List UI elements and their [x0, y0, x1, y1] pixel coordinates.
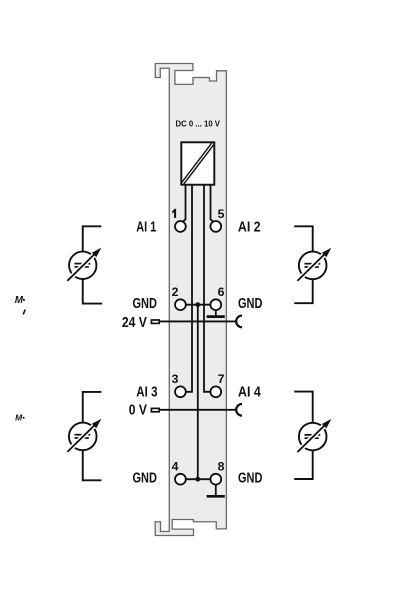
V2 arrow	[297, 253, 325, 281]
module body 750-459	[155, 64, 226, 536]
svg-text:6: 6	[218, 285, 225, 299]
svg-text:0 V: 0 V	[129, 402, 147, 418]
V1 circle	[69, 252, 96, 279]
terminal 4	[175, 474, 186, 485]
wire V4 top	[294, 392, 313, 423]
wire link 2-6	[186, 304, 210, 306]
isolation diagonal (double line)	[181, 142, 212, 183]
leg to terminal 5	[211, 185, 214, 222]
V3 arrowhead	[92, 419, 102, 429]
ground symbol terminal 8	[215, 485, 217, 496]
wire V3 top	[83, 392, 102, 423]
V1 equal lines	[75, 263, 91, 265]
24V line	[160, 320, 236, 322]
wire V3 bottom	[83, 450, 102, 480]
wire V4 bottom	[294, 450, 313, 479]
0V plug	[151, 408, 159, 411]
24V plug	[151, 320, 159, 323]
svg-text:M: M	[15, 295, 24, 306]
svg-text:4: 4	[172, 460, 179, 474]
V3 equal lines	[75, 434, 91, 436]
wire AI3 (box to terminal 3)	[186, 185, 192, 392]
terminal 6	[210, 299, 221, 310]
V4 arrowhead	[322, 419, 332, 429]
wire V2 top	[294, 226, 313, 252]
converter box U1	[181, 142, 214, 184]
svg-text:5: 5	[218, 207, 225, 221]
svg-text:AI 1: AI 1	[136, 220, 156, 236]
0V socket arc	[236, 404, 242, 416]
svg-text:24 V: 24 V	[122, 315, 147, 331]
svg-text:DC 0 ... 10 V: DC 0 ... 10 V	[176, 119, 221, 129]
V3 arrow halo	[67, 424, 95, 452]
svg-text:GND: GND	[133, 296, 157, 312]
V1 arrow	[67, 253, 95, 281]
V4 equal lines	[305, 434, 321, 436]
junction dot row 2	[195, 302, 200, 307]
terminal 3	[175, 386, 186, 397]
svg-text:3: 3	[172, 372, 179, 386]
svg-text:2: 2	[172, 285, 179, 299]
source symbol V4 (right lower)	[294, 392, 331, 479]
V4 arrow halo	[297, 424, 325, 452]
wire V1 bottom	[83, 279, 102, 304]
svg-text:GND: GND	[238, 471, 262, 487]
V1 arrow halo	[67, 253, 95, 281]
wire V1 top	[83, 226, 102, 251]
terminal 7	[210, 386, 221, 397]
source symbol V1 (left upper)	[67, 226, 102, 303]
source symbol V3 (left lower)	[67, 392, 101, 480]
leg to terminal 1	[183, 185, 186, 222]
source symbol V2 (right upper)	[294, 226, 331, 303]
V2 arrow halo	[297, 253, 325, 281]
svg-text:GND: GND	[238, 296, 262, 312]
ground symbol terminal 6	[215, 310, 217, 316]
V4 arrow	[297, 424, 325, 452]
svg-text:M: M	[15, 413, 22, 422]
svg-text:8: 8	[218, 460, 225, 474]
terminal 8	[210, 474, 221, 485]
svg-text:AI 3: AI 3	[136, 384, 157, 400]
V2 arrowhead	[322, 248, 332, 258]
svg-text:GND: GND	[133, 471, 157, 487]
wire link 4-8	[186, 478, 210, 480]
V2 circle	[299, 252, 327, 280]
24V socket arc	[236, 316, 242, 328]
0V line	[160, 409, 236, 411]
wire GND center rail	[197, 305, 199, 480]
svg-text:AI 4: AI 4	[238, 384, 261, 400]
wire AI4 (box to terminal 7)	[204, 185, 210, 392]
svg-text:AI 2: AI 2	[238, 220, 261, 236]
terminal 1	[175, 221, 186, 232]
V1 arrowhead	[92, 248, 102, 258]
pin number 1	[172, 209, 176, 218]
wire V2 bottom	[294, 279, 313, 303]
V3 arrow	[67, 424, 95, 452]
V3 circle	[69, 423, 97, 451]
junction dot row 4	[195, 477, 200, 482]
V4 circle	[299, 423, 327, 451]
margin fragment slash	[23, 310, 25, 315]
terminal 5	[210, 221, 221, 232]
svg-text:7: 7	[218, 372, 225, 386]
V2 equal lines	[305, 263, 321, 265]
terminal 2	[175, 299, 186, 310]
